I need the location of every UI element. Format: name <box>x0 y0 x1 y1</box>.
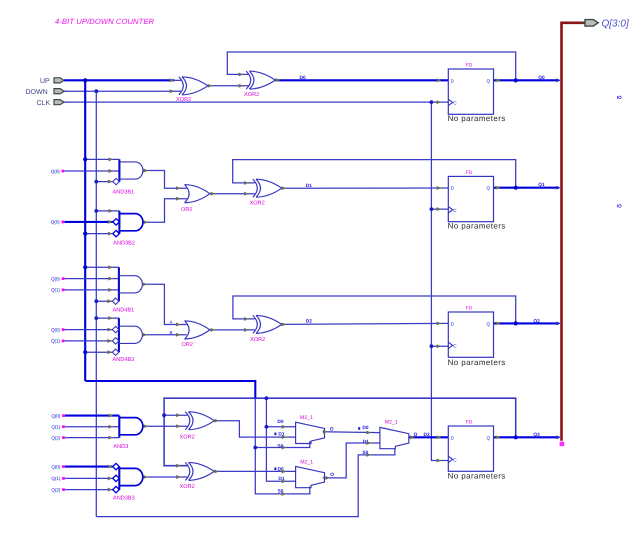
svg-text:M2_1: M2_1 <box>300 415 313 421</box>
wire XOR row4a out to M2_1 D1 <box>215 421 296 437</box>
wire M1 out to M3 D0 <box>323 431 380 434</box>
junction <box>514 435 518 439</box>
svg-text:No parameters: No parameters <box>448 221 506 230</box>
or gate OR2 row2 <box>185 185 210 203</box>
wire AND3B2 in3 <box>85 233 113 235</box>
wire M1 S0 branch <box>255 447 286 449</box>
wire AND3 out to XOR <box>143 425 188 427</box>
wire AND4B3 in1 <box>96 317 119 319</box>
svg-text:IO: IO <box>617 95 622 100</box>
svg-text:XOR2: XOR2 <box>180 484 195 490</box>
svg-text:FD: FD <box>466 62 473 68</box>
wire FD3 Q to bus <box>494 322 559 324</box>
wire XOR2 A out to XOR2 B in <box>208 85 249 87</box>
wire AND4B1 in3 stub <box>65 289 119 291</box>
svg-text:D0: D0 <box>362 425 368 431</box>
wire M2 out to M3 D1 <box>323 443 380 478</box>
xor gate XOR2 row4 lower <box>185 462 214 480</box>
svg-text:No parameters: No parameters <box>448 358 506 367</box>
bus end marker <box>560 442 565 447</box>
junction <box>430 207 434 211</box>
wire AND3B1 in2 stub Q0 <box>64 170 119 172</box>
wire D0 net <box>274 79 276 81</box>
wire Q3 branch to mux <box>266 398 295 481</box>
wire Q1 feedback <box>233 160 516 188</box>
junction <box>430 344 434 348</box>
wire AND4B3 in3 stub <box>65 340 113 342</box>
xor gate XOR2 row1 b <box>246 71 275 89</box>
svg-text:XOR2: XOR2 <box>250 201 265 207</box>
junction <box>83 350 87 354</box>
bus tap <box>556 321 561 325</box>
svg-text:D3: D3 <box>424 432 430 438</box>
xor gate XOR2 row2 <box>253 179 282 197</box>
wire AND3B2 out to OR2 <box>143 199 187 223</box>
svg-text:No parameters: No parameters <box>448 114 506 123</box>
junction <box>94 89 98 93</box>
svg-text:AND3B3: AND3B3 <box>113 496 135 502</box>
svg-text:XOR2: XOR2 <box>176 97 191 103</box>
wire UP rail <box>84 80 86 381</box>
svg-text:Q: Q <box>487 435 491 440</box>
wire AND3B2 in1 <box>96 210 119 212</box>
wire CLK <box>64 101 431 103</box>
svg-text:Q(0): Q(0) <box>51 464 60 469</box>
wire AND3 in3 stub <box>65 437 119 439</box>
svg-text:Q(0): Q(0) <box>51 413 60 418</box>
junction <box>94 180 98 184</box>
wire M3 out to FD4 D <box>409 436 449 438</box>
wire AND4B1 in4 <box>96 300 112 302</box>
and gate AND4B3 <box>118 318 120 352</box>
wire AND3B1 out to OR2 <box>143 171 187 189</box>
svg-text:No parameters: No parameters <box>448 472 506 481</box>
svg-text:FD: FD <box>466 170 473 176</box>
wire AND3B3 in1 stub <box>65 466 113 468</box>
junction <box>265 396 269 400</box>
wire D2 net <box>282 323 449 324</box>
svg-text:UP: UP <box>40 78 50 85</box>
svg-text:Q: Q <box>487 186 491 191</box>
wire OR2 out to XOR2 <box>210 193 255 195</box>
or gate OR2 row3 <box>185 321 210 339</box>
wire AND4B3 out to OR2 <box>142 334 186 336</box>
svg-text:M2_1: M2_1 <box>300 460 313 466</box>
wire CLK rail <box>431 102 448 460</box>
and gate AND4B1 <box>118 267 120 301</box>
wire FD2 C branch <box>431 208 448 210</box>
svg-text:AND3B2: AND3B2 <box>113 241 135 247</box>
output pin Q[3:0] <box>581 22 586 24</box>
wire AND3B1 in3 <box>96 181 113 183</box>
wire DOWN select to M3 S0 <box>96 455 371 517</box>
svg-text:Q3: Q3 <box>533 432 540 438</box>
wire AND3B3 in2 stub <box>65 477 113 479</box>
wire AND3 in2 stub <box>65 426 119 428</box>
svg-text:Q: Q <box>487 321 491 326</box>
svg-text:Q(0): Q(0) <box>51 276 60 281</box>
wire FD1 Q to bus <box>494 79 559 81</box>
svg-text:Q0: Q0 <box>538 75 545 81</box>
and gate AND3B2 <box>118 211 120 234</box>
svg-text:FD: FD <box>466 419 473 425</box>
flip-flop FD3 <box>448 312 493 357</box>
wire OR2 out to XOR2 row3 <box>210 329 255 331</box>
svg-text:Q(1): Q(1) <box>51 425 60 430</box>
junction <box>83 157 87 161</box>
pin arrows <box>107 72 500 495</box>
wire FD4 Q to bus <box>494 436 559 438</box>
wire XOR row4a top in <box>164 414 187 416</box>
wire D1 net <box>282 187 449 189</box>
svg-text:M2_1: M2_1 <box>385 420 398 426</box>
junction <box>94 209 98 213</box>
svg-text:Q[3:0]: Q[3:0] <box>602 19 629 30</box>
junction <box>83 232 87 236</box>
svg-text:D0: D0 <box>277 419 283 425</box>
svg-text:Q(0): Q(0) <box>51 327 60 332</box>
svg-text:B: B <box>170 330 173 335</box>
wire AND4B3 in2 stub <box>65 329 113 331</box>
wire AND4B1 in2 stub <box>65 278 119 280</box>
wire AND4B1 out to OR2 <box>142 284 186 324</box>
bus Q[3:0] <box>562 23 585 441</box>
junction <box>265 425 269 429</box>
junction <box>514 186 518 190</box>
mux M2_1 lower <box>296 466 325 487</box>
svg-text:Q: Q <box>487 78 491 83</box>
svg-text:Q(1): Q(1) <box>51 288 60 293</box>
svg-text:A: A <box>170 319 173 324</box>
wire AND3B3 out to XOR <box>143 476 188 478</box>
bus tap <box>556 435 561 439</box>
svg-text:AND4B1: AND4B1 <box>113 308 135 314</box>
junction <box>253 446 257 450</box>
wire XOR row4b out to M2_1 D0 <box>215 470 296 472</box>
svg-text:AND3: AND3 <box>113 444 128 450</box>
junction <box>162 413 166 417</box>
svg-text:Q(2): Q(2) <box>51 487 60 492</box>
svg-text:D1: D1 <box>306 183 312 189</box>
svg-text:XOR2: XOR2 <box>250 337 265 343</box>
svg-text:O: O <box>330 427 334 433</box>
and gate AND3B1 <box>118 159 120 181</box>
svg-text:D2: D2 <box>306 319 312 325</box>
svg-text:Q(0): Q(0) <box>51 220 60 225</box>
svg-text:O: O <box>330 472 334 478</box>
svg-text:IO: IO <box>617 203 622 208</box>
junction <box>514 321 518 325</box>
svg-text:DOWN: DOWN <box>26 89 48 96</box>
svg-text:Q(0): Q(0) <box>51 169 60 174</box>
junction <box>83 265 87 269</box>
svg-text:OR2: OR2 <box>181 207 193 213</box>
xor gate XOR2 row3 <box>253 315 282 333</box>
wire AND3 in1 stub <box>65 415 119 417</box>
flip-flop FD4 <box>448 426 493 471</box>
wire DOWN rail <box>95 91 97 516</box>
wire AND4B3 in4 <box>85 351 112 353</box>
and gate AND3 <box>118 416 120 438</box>
xor gate XOR2 row4 upper <box>185 412 214 430</box>
wire M1 S0 stub <box>286 441 310 447</box>
bus tap <box>556 186 561 190</box>
junction <box>94 316 98 320</box>
wire Q3 feedback <box>164 398 516 466</box>
wire UP select <box>85 381 255 399</box>
svg-text:Q1: Q1 <box>538 182 545 188</box>
and gate AND3B3 <box>118 467 120 490</box>
tiny pin marks <box>274 433 276 436</box>
svg-text:XOR2: XOR2 <box>180 435 195 441</box>
junction <box>430 100 434 104</box>
flip-flop FD2 <box>448 176 493 221</box>
svg-text:CLK: CLK <box>37 100 51 107</box>
svg-text:FD: FD <box>466 305 473 311</box>
svg-text:4-BIT UP/DOWN COUNTER: 4-BIT UP/DOWN COUNTER <box>55 17 155 26</box>
bus tap <box>556 78 561 82</box>
svg-text:Q(1): Q(1) <box>51 476 60 481</box>
wire Q0 feedback <box>227 52 515 80</box>
svg-text:AND3B1: AND3B1 <box>113 190 135 196</box>
xor gate XOR2 row1 a <box>179 77 208 95</box>
svg-text:AND4B3: AND4B3 <box>113 357 135 363</box>
wire M2_1 upper D0 branch <box>266 426 295 428</box>
wire DOWN <box>64 90 181 92</box>
wire AND3B1 in1 <box>85 158 119 160</box>
wire AND3B2 in2 stub <box>64 221 112 223</box>
svg-text:D0: D0 <box>300 75 306 81</box>
wire UP <box>64 79 174 81</box>
svg-text:OR2: OR2 <box>182 342 194 348</box>
wire FD3 C branch <box>431 345 448 347</box>
svg-text:Q(1): Q(1) <box>51 339 60 344</box>
mux M2_1 upper <box>296 422 325 443</box>
wire M3 S0 stub <box>371 448 395 455</box>
wire AND4B1 in1 <box>85 266 119 268</box>
svg-text:Q(2): Q(2) <box>51 435 60 440</box>
svg-text:Q2: Q2 <box>533 318 540 324</box>
flip-flop FD1 <box>448 69 493 114</box>
wire FD2 Q to bus <box>494 187 559 189</box>
junction <box>94 299 98 303</box>
wire AND3B3 in3 stub <box>65 489 113 491</box>
junction <box>83 78 87 82</box>
wire Q2 feedback <box>233 296 516 323</box>
junction <box>514 78 518 82</box>
svg-text:XOR2: XOR2 <box>244 92 259 98</box>
wire M2 S0 stub <box>286 487 310 494</box>
mux M2_1 middle <box>380 427 409 448</box>
